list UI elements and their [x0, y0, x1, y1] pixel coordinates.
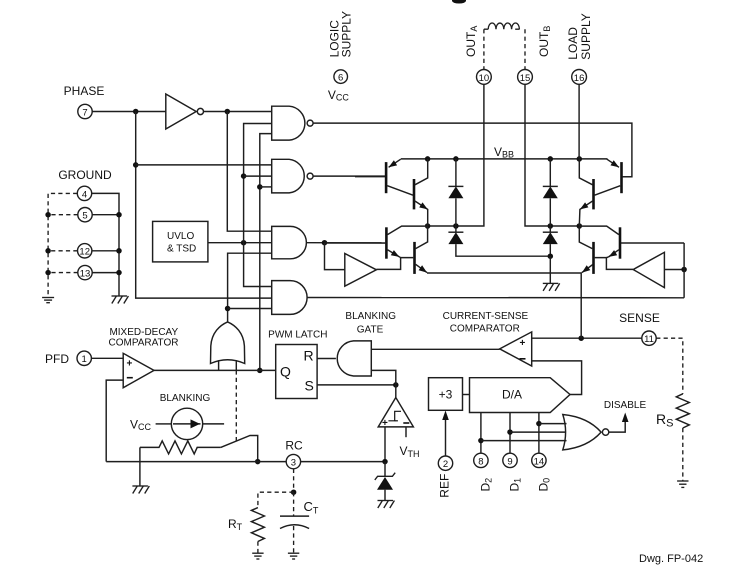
svg-text:DISABLE: DISABLE	[604, 400, 647, 411]
dashed sense to RS	[656, 338, 683, 394]
resistor RT	[251, 508, 264, 542]
svg-text:13: 13	[80, 269, 91, 280]
node Q5L emitter	[399, 256, 413, 259]
wire top input from comparator	[371, 348, 499, 350]
nand gate N2	[272, 159, 305, 193]
wire vertical A to gate3	[227, 112, 271, 232]
wire vertical B	[244, 124, 272, 287]
cropped title remnant	[452, 0, 466, 4]
transistor Q1 (PNP upper-left outer)	[385, 162, 388, 193]
capacitor CT dashed lead	[293, 492, 295, 516]
pin 1	[77, 351, 91, 365]
wire G3 to left driver	[325, 243, 345, 270]
svg-text:14: 14	[534, 456, 545, 467]
svg-text:COMPARATOR: COMPARATOR	[450, 324, 520, 335]
coil	[484, 23, 520, 29]
pin 12	[78, 244, 92, 258]
pin 2	[438, 456, 452, 470]
svg-text:16: 16	[574, 73, 585, 84]
wire D0	[538, 413, 540, 454]
svg-text:RC: RC	[285, 439, 303, 453]
node junction phase	[133, 109, 139, 115]
diode D3 (upper right)	[549, 159, 551, 187]
pin 6	[334, 70, 348, 84]
svg-text:15: 15	[520, 73, 531, 84]
dashed coil leads	[483, 29, 485, 69]
pin 3	[286, 454, 300, 468]
svg-text:UVLO: UVLO	[167, 231, 194, 242]
wire latch R to blanking gate	[317, 358, 336, 360]
zener diode	[384, 462, 386, 477]
svg-text:BLANKING: BLANKING	[160, 393, 211, 404]
wire dashed to switch	[235, 370, 237, 441]
pin16 wire down	[578, 84, 580, 159]
wire G3 out	[307, 242, 386, 244]
comparator triangle left-facing	[500, 332, 532, 366]
wire low emitters to sense	[427, 273, 581, 338]
resistor RS	[676, 394, 689, 428]
svg-text:CURRENT-SENSE: CURRENT-SENSE	[443, 311, 529, 322]
resistor blanking	[140, 441, 221, 454]
UVLO & TSD box	[153, 221, 208, 262]
svg-text:6: 6	[338, 73, 343, 84]
svg-text:MIXED-DECAY: MIXED-DECAY	[109, 327, 178, 338]
dashed from pin3 down	[293, 469, 295, 492]
transistor Q5R (lower-right pre-driver)	[619, 227, 622, 258]
wire ground bus left dashed	[48, 193, 77, 297]
svg-text:Q: Q	[280, 364, 291, 380]
wire OR junction to G4 input3	[228, 308, 272, 310]
wire OR left input leg	[218, 360, 220, 370]
pin 13	[78, 265, 92, 279]
svg-text:BLANKING: BLANKING	[345, 311, 396, 322]
wire minus input to D/A	[532, 361, 582, 395]
OUT_A node dots	[425, 223, 431, 229]
wire inverter out	[204, 111, 272, 113]
transistor Q5L (lower-left pre-driver)	[385, 227, 388, 258]
wire plus input from sense	[532, 337, 582, 339]
wire nor out DISABLE	[609, 421, 625, 432]
dashed to RT	[258, 492, 294, 507]
pin 9	[503, 453, 517, 467]
svg-text:9: 9	[507, 456, 512, 467]
pin 7	[78, 104, 92, 118]
svg-text:PWM LATCH: PWM LATCH	[268, 330, 327, 341]
wire resistor ground leg	[139, 447, 141, 485]
wire D2	[480, 413, 482, 454]
current source circle	[171, 408, 202, 439]
svg-text:+3: +3	[439, 388, 453, 402]
VBB rail	[401, 158, 608, 160]
pin 8	[474, 453, 488, 467]
schmitt triangle up	[378, 398, 413, 427]
pin 14	[532, 453, 546, 467]
hysteresis symbol	[388, 411, 401, 421]
pin15 wire down	[525, 84, 579, 226]
svg-text:4: 4	[82, 189, 87, 200]
transistor Q4 (NPN upper-right inner)	[592, 179, 595, 209]
wire latch S to junction	[317, 384, 396, 386]
wire comparator minus feedback	[106, 380, 123, 462]
transistor Q6L (lower-left output)	[413, 242, 416, 274]
svg-text:2: 2	[443, 459, 448, 470]
D/A pentagon	[470, 378, 571, 413]
wire S junction down to schmitt	[395, 385, 397, 398]
capacitor CT	[280, 515, 309, 517]
svg-text:GROUND: GROUND	[58, 168, 112, 182]
wire pin7 to inverter	[92, 111, 166, 113]
svg-text:11: 11	[644, 334, 654, 345]
latch box	[276, 345, 317, 399]
wire nand2 input1	[136, 164, 272, 166]
wire UVLO output	[208, 242, 272, 244]
wire OR output up	[228, 253, 272, 322]
pin 11	[642, 331, 656, 345]
diode D4 (lower right)	[549, 226, 551, 232]
driver buffer right	[633, 252, 664, 287]
ground chassis blanking	[132, 486, 149, 494]
wire driver input	[664, 269, 684, 271]
wire schmitt plus input	[384, 427, 386, 462]
wire N1 out to Q3R base	[313, 123, 632, 177]
wire RC line	[106, 461, 286, 463]
and gate G3	[272, 226, 307, 258]
transistor Q6R (lower-right output)	[592, 242, 595, 274]
wire pin3 to zener node	[301, 461, 385, 463]
svg-text:8: 8	[478, 456, 483, 467]
svg-text:REF: REF	[438, 474, 452, 498]
and gate G4	[272, 281, 307, 315]
dashed CT to ground	[293, 526, 295, 553]
wire sense line	[581, 337, 642, 339]
diode D1 (upper left)	[455, 159, 457, 187]
op-amp mixed-decay comparator	[123, 353, 154, 387]
nand gate N1	[272, 106, 305, 140]
ground chassis bridge	[543, 283, 560, 291]
svg-text:12: 12	[79, 247, 90, 258]
svg-text:5: 5	[82, 211, 87, 222]
svg-text:SUPPLY: SUPPLY	[340, 11, 354, 57]
nor gate	[563, 415, 601, 450]
svg-text:SENSE: SENSE	[619, 311, 660, 325]
svg-text:3: 3	[291, 458, 296, 469]
inverter	[166, 94, 196, 129]
or gate	[211, 322, 245, 364]
svg-text:D/A: D/A	[502, 388, 522, 402]
svg-text:Dwg. FP-042: Dwg. FP-042	[639, 553, 703, 565]
svg-text:1: 1	[82, 354, 87, 365]
dashed RT to ground	[257, 542, 259, 553]
pin 4	[77, 186, 91, 200]
transistor Q2 (NPN upper-left inner)	[413, 179, 416, 209]
svg-text:7: 7	[82, 107, 87, 118]
svg-text:+: +	[520, 338, 526, 349]
+3 box	[429, 378, 463, 411]
pin 16	[572, 70, 587, 85]
wire right driver loop	[683, 243, 685, 298]
transistor Q3 (PNP upper-right outer)	[620, 162, 623, 193]
wire +3 to D/A	[463, 394, 470, 396]
wire phase vertical x136	[136, 112, 272, 299]
svg-text:& TSD: & TSD	[167, 244, 196, 255]
blanking gate (left facing AND)	[337, 341, 371, 376]
pin 15	[518, 70, 533, 85]
wire vcc to source	[156, 423, 172, 425]
wire D1	[509, 413, 511, 454]
svg-text:PFD: PFD	[45, 352, 69, 366]
diode D2 (lower left)	[455, 226, 457, 232]
OUT_B node dots	[548, 223, 554, 229]
svg-text:R: R	[304, 348, 314, 364]
svg-text:SUPPLY: SUPPLY	[579, 13, 593, 59]
pin10 wire down	[428, 84, 484, 226]
ground earth RS	[677, 481, 688, 487]
svg-text:COMPARATOR: COMPARATOR	[108, 338, 178, 349]
wire N2 out to Q1L base	[313, 175, 386, 177]
ground earth CT	[288, 553, 299, 559]
wire vertical C	[260, 134, 272, 371]
wire G4 out to right driver	[307, 297, 684, 299]
svg-text:+: +	[127, 359, 133, 370]
svg-text:10: 10	[479, 73, 490, 84]
svg-text:PHASE: PHASE	[64, 84, 105, 98]
dashed RS to ground	[682, 428, 684, 481]
switch arm	[221, 436, 258, 462]
wire D4 to ground	[549, 256, 551, 283]
ground earth RT	[252, 553, 263, 559]
wire pin1 to comparator	[91, 357, 123, 359]
pin 5	[78, 208, 92, 222]
pin 10	[477, 70, 492, 85]
ground earth left	[42, 298, 54, 303]
wire schmitt minus stub VTH	[405, 427, 407, 437]
ground chassis zener	[378, 501, 395, 509]
driver buffer left	[345, 254, 377, 287]
REF arrow	[445, 419, 447, 456]
wire ground bus right	[92, 193, 119, 295]
wire OR right input leg	[235, 360, 237, 370]
svg-text:GATE: GATE	[357, 324, 384, 335]
ground chassis right	[112, 296, 129, 304]
wire source out	[203, 423, 224, 425]
svg-text:S: S	[305, 378, 314, 394]
wire comparator out to latch Q	[154, 369, 276, 371]
wire bottom input to S junction	[371, 370, 396, 385]
